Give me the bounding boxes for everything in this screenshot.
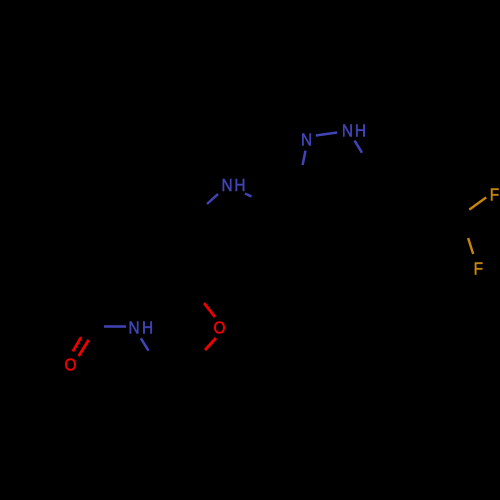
svg-text:H: H <box>142 319 153 338</box>
ether oxygen O label <box>214 319 226 338</box>
indole N-C7a bond, N-side half (blue) <box>207 194 218 204</box>
amide N to ring bond, N-side half (blue) <box>141 338 149 351</box>
pyrazole N2-C3 bond, N-side half (blue) <box>303 151 306 165</box>
carbonyl C=O double bond, O-side halves (red) <box>73 337 89 356</box>
carbonyl oxygen O label <box>65 356 77 375</box>
methoxy ether C-O bond lower, O-side half (red) <box>205 338 216 350</box>
indole N-H label <box>222 176 233 195</box>
svg-text:N: N <box>129 319 140 338</box>
C-F bond to F1, F-side half (gold) <box>469 197 486 209</box>
fluorine F1 label <box>490 186 499 205</box>
svg-text:H: H <box>234 176 245 195</box>
acetyl methyl C-C bond (carbon, black) <box>60 291 86 327</box>
svg-text:N: N <box>222 176 233 195</box>
svg-text:F: F <box>490 186 499 205</box>
fluorine F2 label <box>474 260 483 279</box>
chain carbon bonds to CHF2 (carbon, black) <box>377 176 425 190</box>
svg-text:F: F <box>474 260 483 279</box>
svg-text:N: N <box>342 122 353 141</box>
indole N-C2 bond stub, N-side half (blue) <box>245 194 252 197</box>
methoxy ether C-O bond upper, O-side half (red) <box>204 303 215 317</box>
C-F bond to F2, F-side half (gold) <box>468 238 473 254</box>
svg-text:H: H <box>355 122 366 141</box>
amide N-H label <box>129 319 140 338</box>
svg-text:O: O <box>65 356 77 375</box>
pyrazole N2 label <box>301 131 312 150</box>
pyrazole N1-N2 bond (blue) <box>316 133 337 136</box>
pyrazole N1-C5 bond, N-side half (blue) <box>355 141 363 153</box>
amide C-N bond, N-side half (blue) <box>104 325 126 328</box>
svg-text:N: N <box>301 131 312 150</box>
ring carbon bond to amide (carbon, black) <box>149 351 157 374</box>
pyrazole N1-H label <box>342 122 353 141</box>
svg-text:O: O <box>214 319 226 338</box>
